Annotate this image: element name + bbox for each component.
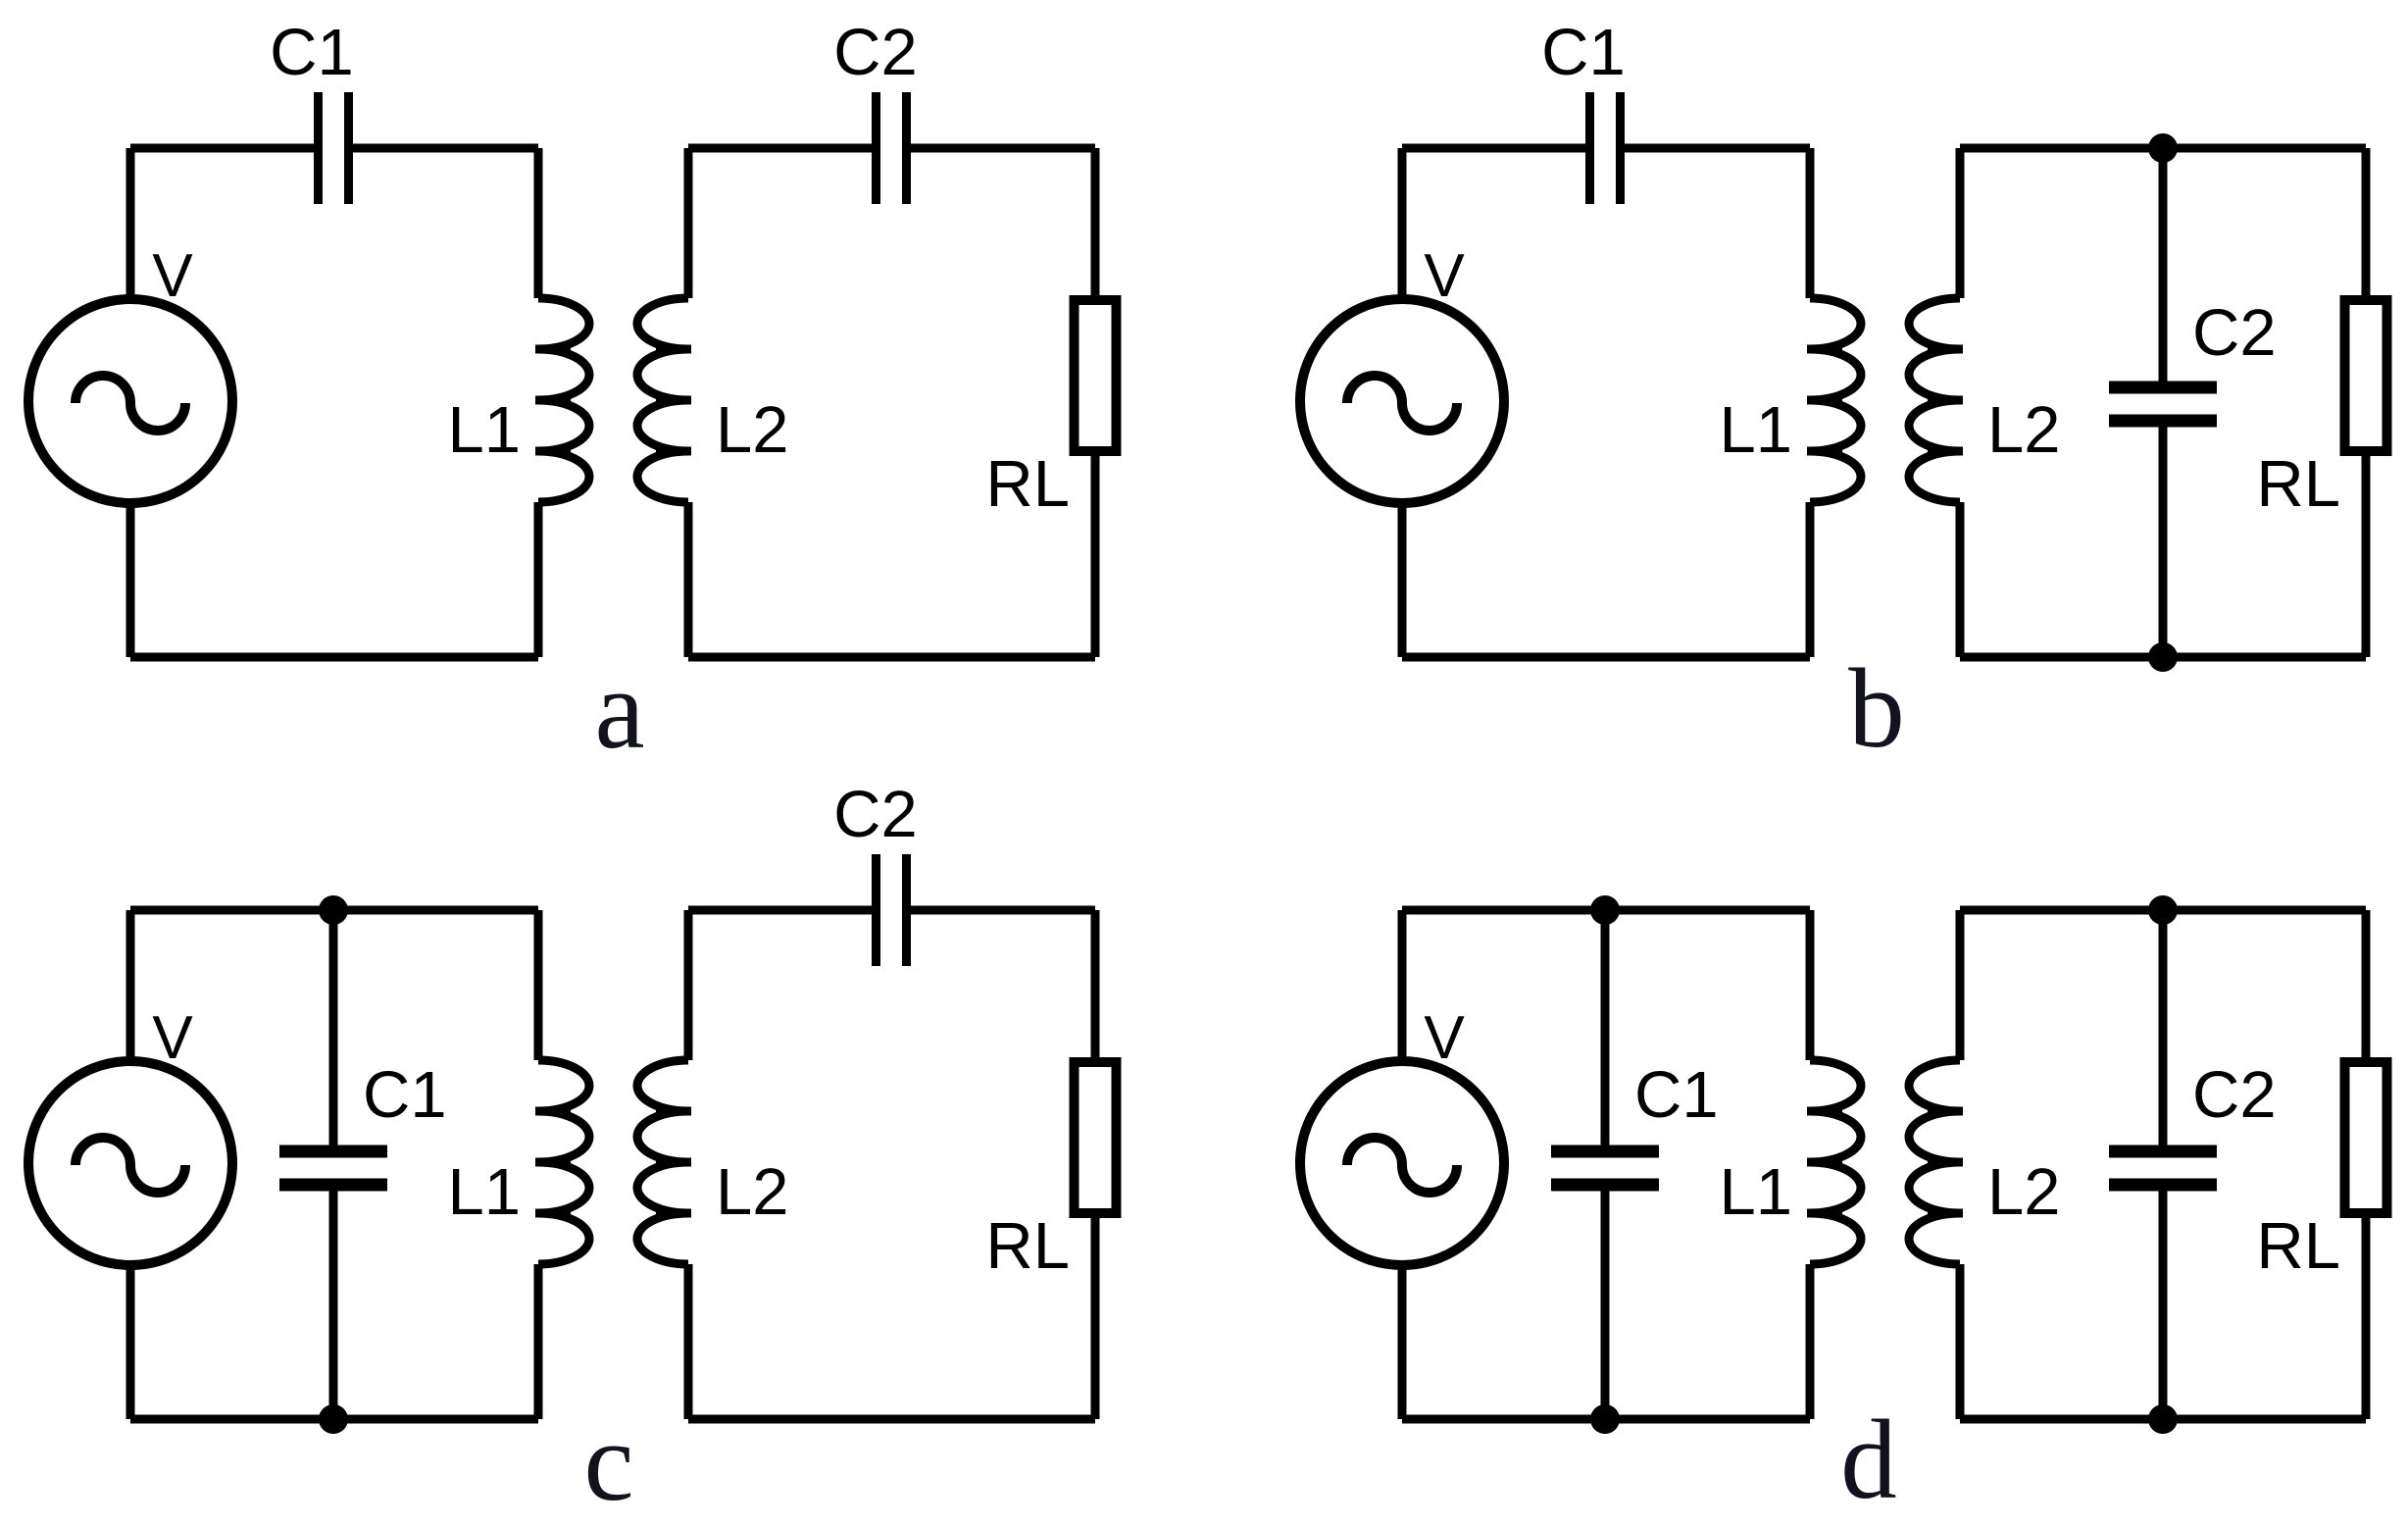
svg-text:C2: C2: [2192, 1058, 2277, 1132]
svg-text:L2: L2: [716, 393, 789, 467]
svg-text:C1: C1: [1634, 1058, 1719, 1132]
svg-text:V: V: [1424, 242, 1465, 310]
svg-text:C1: C1: [1541, 16, 1626, 89]
svg-text:L2: L2: [1987, 393, 2061, 467]
svg-text:C2: C2: [833, 16, 918, 89]
svg-text:C2: C2: [833, 778, 918, 851]
svg-text:RL: RL: [985, 1209, 1070, 1283]
svg-text:C1: C1: [270, 16, 354, 89]
svg-text:L2: L2: [1987, 1155, 2061, 1229]
svg-text:V: V: [152, 242, 193, 310]
svg-text:L2: L2: [716, 1155, 789, 1229]
svg-text:RL: RL: [985, 447, 1070, 521]
svg-text:c: c: [583, 1400, 633, 1524]
svg-text:C1: C1: [363, 1058, 447, 1132]
svg-text:L1: L1: [1719, 393, 1792, 467]
svg-text:d: d: [1840, 1398, 1897, 1522]
svg-text:V: V: [152, 1004, 193, 1072]
svg-text:L1: L1: [447, 1155, 521, 1229]
svg-text:a: a: [594, 647, 644, 772]
svg-text:RL: RL: [2256, 447, 2340, 521]
svg-text:C2: C2: [2192, 296, 2277, 370]
svg-text:b: b: [1848, 646, 1905, 771]
svg-text:L1: L1: [1719, 1155, 1792, 1229]
svg-text:RL: RL: [2256, 1209, 2340, 1283]
svg-text:V: V: [1424, 1004, 1465, 1072]
svg-text:L1: L1: [447, 393, 521, 467]
